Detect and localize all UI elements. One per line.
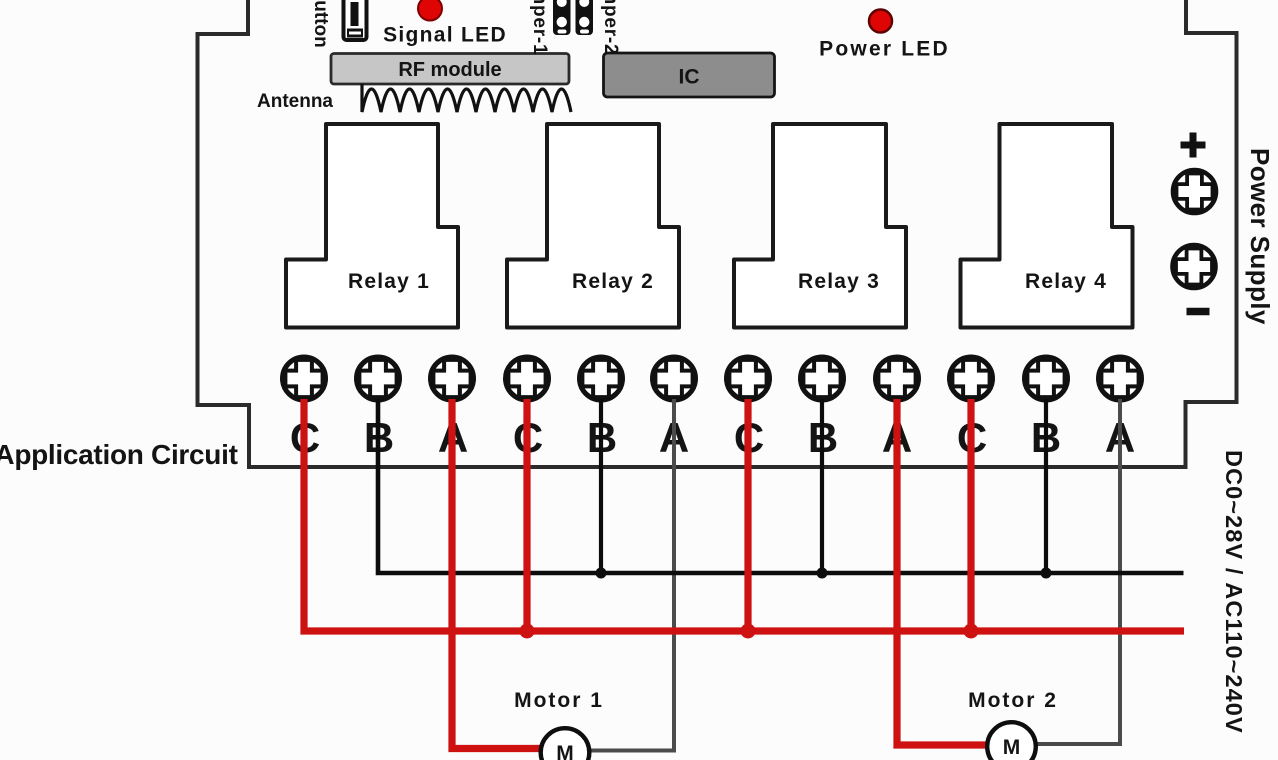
terminal T4 C <box>506 357 549 400</box>
svg-text:Jumper-2: Jumper-2 <box>600 0 621 55</box>
wire black B2 <box>599 399 603 571</box>
jumper J1 header <box>553 0 571 35</box>
wire red C3 <box>744 399 751 631</box>
pushbutton S1 <box>344 0 367 40</box>
wire red A1 to motor1 <box>452 399 542 749</box>
svg-text:Antenna: Antenna <box>257 91 333 112</box>
terminal T12 A <box>1099 357 1142 400</box>
svg-text:Relay 2: Relay 2 <box>572 270 654 293</box>
wire red C2 <box>523 399 530 631</box>
IC U2 <box>604 53 775 97</box>
terminal T8 B <box>801 357 844 400</box>
terminal T5 B <box>580 357 623 400</box>
wire red C4 <box>967 399 974 631</box>
svg-text:Jumper-1: Jumper-1 <box>529 0 550 55</box>
wire gray A2 to motor1 <box>590 399 674 751</box>
wire gray A4 to motor2 <box>1036 399 1120 744</box>
relay K2 <box>507 124 679 328</box>
LED D2 power <box>819 10 950 61</box>
junction dot C4 <box>964 624 979 639</box>
junction dot B3 <box>817 568 828 579</box>
relay K1 <box>286 124 458 328</box>
power screw terminal V- <box>1173 245 1216 288</box>
svg-text:Button: Button <box>310 0 331 48</box>
power terminal minus <box>1187 308 1210 316</box>
terminal T7 C <box>727 357 770 400</box>
terminal T10 C <box>950 357 993 400</box>
LED D1 signal <box>383 0 507 47</box>
motor M1 <box>514 689 604 760</box>
terminal T9 A <box>876 357 919 400</box>
antenna <box>257 84 571 112</box>
wire red C1 + red bus <box>304 399 1184 631</box>
relay K3 <box>734 124 906 328</box>
svg-text:Signal LED: Signal LED <box>383 24 507 47</box>
terminal T6 A <box>653 357 696 400</box>
junction dot B4 <box>1041 568 1052 579</box>
svg-text:Motor 1: Motor 1 <box>514 689 604 712</box>
terminal T3 A <box>431 357 474 400</box>
wire black B3 <box>820 399 824 571</box>
svg-text:M: M <box>556 742 574 760</box>
svg-text:DC0~28V / AC110~240V: DC0~28V / AC110~240V <box>1221 450 1247 734</box>
power screw terminal V+ <box>1173 170 1216 213</box>
terminal T11 B <box>1025 357 1068 400</box>
svg-text:Relay 4: Relay 4 <box>1025 270 1107 293</box>
svg-text:Power LED: Power LED <box>819 38 950 61</box>
motor M2 <box>968 689 1058 760</box>
svg-text:M: M <box>1003 736 1021 759</box>
power terminal plus <box>1181 133 1206 158</box>
svg-text:IC: IC <box>679 66 700 89</box>
junction dot B2 <box>596 568 607 579</box>
wire black B4 <box>1044 399 1048 571</box>
jumper J2 header <box>576 0 594 35</box>
RF module U1 <box>331 54 569 85</box>
terminal T1 C <box>283 357 326 400</box>
svg-text:Application Circuit: Application Circuit <box>0 439 238 470</box>
wire red A3 to motor2 <box>897 399 988 745</box>
svg-text:RF module: RF module <box>398 59 501 81</box>
svg-text:Power Supply: Power Supply <box>1245 148 1275 325</box>
svg-text:Motor 2: Motor 2 <box>968 689 1058 712</box>
svg-text:Relay 3: Relay 3 <box>798 270 880 293</box>
board outline <box>198 0 1237 467</box>
relay K4 <box>961 124 1133 328</box>
terminal row screws <box>283 357 1142 400</box>
terminal labels C B A x4 <box>290 414 1135 461</box>
wire black B1 + black bus <box>378 399 1184 573</box>
svg-text:Relay 1: Relay 1 <box>348 270 430 293</box>
junction dot C2 <box>520 624 535 639</box>
junction dot C3 <box>741 624 756 639</box>
terminal T2 B <box>357 357 400 400</box>
